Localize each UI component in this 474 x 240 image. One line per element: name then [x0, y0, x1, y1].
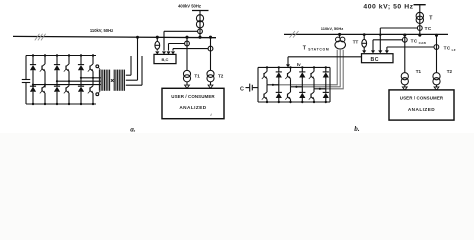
label TT (b) [353, 39, 359, 44]
diode D1 top (a) [30, 56, 36, 85]
line-break slashes on 110kV line (a) [35, 34, 46, 41]
svg-text:C: C [240, 86, 244, 92]
wire: leg 1 midpoint (b) [267, 80, 279, 86]
diode D5 top (b) [323, 67, 329, 79]
transformer T STATCOM (b) [335, 37, 346, 49]
wire: TT to BC box (b) [363, 47, 365, 50]
wire: T1 CT tap to B,C box (a) [169, 44, 185, 51]
wire: AC phase tap leg 1 (a) [32, 84, 101, 86]
wire: bus to voltage transformer (a) [156, 37, 158, 41]
node: rail taps leg 1 (a) [32, 54, 46, 105]
label USER / CONSUMER (a) [171, 94, 215, 99]
wire: DC- rail (b) [258, 101, 330, 103]
svg-text:ANALIZED: ANALIZED [179, 105, 206, 110]
wire: DC+ rail (b) [258, 66, 330, 68]
node: bus junction T1 (b) [403, 33, 406, 36]
current transformer on T1 feeder (a) [185, 41, 190, 46]
node: bus tap for voltage transformer (a) [156, 36, 159, 39]
wire: secondary phase 1 stub (a) [126, 56, 131, 75]
wire: source drop (a) [199, 11, 201, 38]
svg-text:B,C: B,C [162, 57, 169, 62]
wire: secondary phase 3 stub (a) [126, 56, 142, 85]
node: rail taps leg 3 (b) [313, 66, 327, 103]
svg-text:USER / CONSUMER: USER / CONSUMER [400, 95, 444, 100]
wire: statcom 3-phase connection (b) [273, 50, 343, 89]
arrow Iv into converter (b) [286, 64, 290, 67]
wire: T2 feeder (b) [436, 35, 438, 72]
wire: DC link left rail lower (a) [25, 83, 27, 104]
svg-text:T1: T1 [194, 74, 200, 79]
label T1 (b) [416, 69, 422, 74]
transformer winding primary (a) [99, 70, 109, 91]
wire: BC control output to converter (b) [288, 57, 362, 65]
label a. [130, 125, 136, 133]
svg-text:CAB: CAB [419, 41, 427, 45]
arrow into consumer box from T2 (b) [434, 87, 439, 90]
transistor Q1 top (a) [40, 56, 45, 85]
terminal circle top (a) [96, 65, 100, 70]
node: bus junction T2 (a) [209, 36, 212, 39]
svg-text:110kV, 50Hz: 110kV, 50Hz [321, 26, 344, 31]
svg-text:TC: TC [411, 39, 418, 44]
source terminal bar (a) [192, 10, 209, 12]
transistor Q2 bottom (a) [40, 86, 45, 104]
wire: TC LF tap to BC box (b) [387, 47, 434, 51]
voltage transformer TT (a) [155, 41, 160, 49]
wire: T2 CT tap to B,C box (a) [173, 49, 208, 51]
label b. [354, 125, 360, 133]
arrow into consumer box from T2 (a) [208, 85, 213, 88]
wire: TC CAB tap to BC box (b) [373, 40, 402, 51]
wire: leg 1 midpoint stubs (a) [33, 84, 45, 87]
node: rail taps leg 3 (a) [80, 54, 94, 105]
wire: right rail (b) [329, 67, 331, 102]
label T1 (a) [194, 74, 200, 79]
wire: AC phase tap leg 3 (a) [80, 77, 101, 79]
transistor Q3 top (a) [64, 56, 69, 82]
transistor Q5 top (b) [309, 67, 314, 79]
block B,C (a) [154, 54, 176, 63]
svg-text:T2: T2 [218, 74, 224, 79]
svg-text:110kV, 50Hz: 110kV, 50Hz [90, 28, 113, 33]
label 110kV 50Hz (a) [90, 28, 113, 33]
diode D1 top (b) [276, 67, 282, 79]
svg-text:LF: LF [452, 48, 456, 52]
label 400kV 50Hz (a) [178, 4, 201, 9]
transformer core mark (a) [111, 79, 114, 82]
block BC (b) [362, 54, 394, 63]
transistor Q3 top (b) [285, 67, 290, 79]
svg-text:ANALIZED: ANALIZED [408, 107, 435, 112]
wire: leg 2 midpoint stubs (a) [57, 81, 69, 84]
capacitor DC link (a) [22, 80, 30, 83]
current transformer on source (a) [198, 29, 203, 34]
voltage transformer TT (b) [362, 39, 367, 47]
label T2 (a) [218, 74, 224, 79]
wire: DC+ rail (a) [26, 55, 96, 57]
label USER / CONSUMER (b) [400, 95, 444, 100]
capacitor DC link (b) [246, 84, 259, 92]
transformer T (b) [416, 12, 423, 23]
label B,C (a) [162, 57, 169, 62]
diode D5 top (a) [78, 56, 84, 78]
svg-text:T: T [429, 16, 433, 22]
svg-text:400kV 50Hz: 400kV 50Hz [178, 4, 201, 9]
wire: voltage transformer to B,C box (a) [156, 49, 158, 50]
diode D4 bottom (b) [299, 87, 305, 102]
current transformer TC LF (b) [434, 45, 439, 50]
label Iv (b) [297, 62, 301, 67]
wire: secondary phase 2 to bus (a) [126, 36, 139, 80]
wire: 110kV bus of circuit a [13, 36, 216, 37]
wire: DC- rail (a) [26, 103, 96, 105]
transformer T1 (b) [401, 73, 408, 85]
terminal circle bottom (a) [96, 91, 100, 96]
transistor Q1 top (b) [262, 67, 267, 79]
svg-text:T1: T1 [416, 69, 422, 74]
label 110kV 50Hz (b) [321, 26, 344, 31]
wire: source drop (b) [419, 5, 421, 36]
svg-text:TT: TT [353, 39, 359, 44]
node: crossing dot (b) [379, 34, 381, 36]
svg-text:BC: BC [371, 57, 379, 63]
node: source junction (b) [418, 34, 421, 37]
label T2 (b) [447, 69, 453, 74]
wire: leg 2 midpoint (b) [291, 80, 303, 88]
wire: T2 to consumer (a) [210, 82, 212, 86]
node: rail taps leg 2 (b) [289, 66, 303, 103]
node: bus junction T2 (b) [435, 34, 438, 37]
transistor Q4 bottom (b) [285, 87, 290, 102]
transformer T2 (a) [207, 70, 214, 82]
wire: AC phase tap leg 2 (a) [56, 80, 101, 82]
wire: T2 feeder (a) [210, 37, 212, 70]
wire: T1 feeder (b) [404, 35, 406, 73]
arrows into BC box (b) [362, 50, 389, 53]
label i (a) [210, 112, 212, 117]
transistor Q5 top (a) [88, 56, 93, 78]
wire: bus to TT (b) [363, 33, 366, 39]
label ANALIZED (a) [179, 105, 206, 110]
label T STATCOM (b) [303, 46, 330, 52]
wire: T1 feeder (a) [186, 37, 188, 70]
diode D2 bottom (b) [276, 85, 282, 102]
source terminal bar (b) [414, 4, 426, 6]
node: rail taps leg 1 (b) [266, 66, 280, 103]
wire: leg 3 midpoint stubs (a) [81, 77, 93, 80]
svg-text:TC: TC [425, 26, 432, 31]
wire: DC link left rail upper (a) [25, 56, 27, 80]
block USER/CONSUMER ANALIZED (a) [162, 88, 224, 118]
wire: source CT tap to B,C box (a) [164, 31, 198, 50]
wire: T2 to consumer (b) [436, 85, 438, 88]
node: statcom junction (b) [338, 33, 341, 36]
transformer T source (a) [196, 15, 203, 28]
wire: left rail (b) [257, 67, 259, 102]
transformer T2 (b) [433, 73, 440, 85]
transistor Q2 bottom (b) [262, 85, 267, 102]
transformer winding secondary (a) [114, 70, 124, 91]
label TC CAB (b) [411, 39, 427, 46]
label TC LF (b) [444, 45, 456, 52]
transistor Q6 bottom (b) [309, 89, 314, 102]
wire: leg 3 midpoint (b) [314, 80, 326, 90]
arrows into B,C box (a) [155, 51, 175, 54]
diode D6 bottom (a) [78, 80, 84, 104]
line-break slashes on 110kV line (b) [290, 31, 299, 38]
wire: TC tap to BC box (b) [380, 28, 417, 51]
current transformer on T2 feeder (a) [208, 46, 213, 51]
svg-text:T: T [303, 46, 307, 52]
wire: T1 to consumer (a) [186, 82, 188, 86]
diode D2 bottom (a) [30, 86, 36, 104]
svg-text:b.: b. [354, 125, 360, 133]
diode D6 bottom (b) [323, 89, 329, 102]
svg-text:USER / CONSUMER: USER / CONSUMER [171, 94, 215, 99]
svg-text:Iv: Iv [297, 62, 301, 67]
svg-text:TC: TC [444, 45, 451, 50]
label 400 kV; 50 Hz (b) [363, 4, 413, 11]
label C (b) [240, 86, 244, 92]
wire: T1 to consumer (b) [404, 85, 406, 88]
transistor Q4 bottom (a) [64, 84, 69, 104]
arrow into consumer box from T1 (a) [185, 85, 190, 88]
node: source to bus junction (a) [198, 36, 201, 39]
svg-text:T2: T2 [447, 69, 453, 74]
label BC (b) [371, 57, 379, 63]
node: bus junction T1 (a) [185, 36, 188, 39]
diode D3 top (a) [54, 56, 60, 82]
label ANALIZED (b) [408, 107, 435, 112]
transistor Q6 bottom (a) [88, 80, 93, 104]
diode D3 top (b) [299, 67, 305, 79]
svg-text:STATCOM: STATCOM [308, 48, 329, 52]
current transformer TC CAB (b) [402, 37, 407, 42]
block USER/CONSUMER ANALIZED (b) [389, 90, 454, 120]
arrow into consumer box from T1 (b) [402, 87, 407, 90]
label T (b) [429, 16, 433, 22]
current transformer TC (b) [417, 26, 422, 31]
wire: 110kV bus (b) [284, 33, 448, 35]
svg-text:a.: a. [130, 125, 136, 133]
diode D4 bottom (a) [54, 84, 60, 104]
node: rail taps leg 2 (a) [56, 54, 70, 105]
transformer T1 (a) [183, 70, 190, 82]
svg-text:400 kV; 50 Hz: 400 kV; 50 Hz [363, 4, 413, 11]
wire: bus to statcom transformer (b) [339, 34, 341, 37]
label TC (b) [425, 26, 432, 31]
